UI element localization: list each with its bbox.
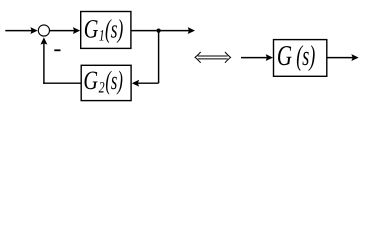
arrowhead into G1 — [73, 27, 80, 34]
wire branch to G2 — [137, 82, 159, 84]
arrowhead output — [188, 27, 195, 34]
svg-text:(s): (s) — [105, 15, 123, 44]
svg-text:G: G — [277, 41, 292, 72]
arrowhead output right — [351, 54, 358, 61]
arrowhead into summing junction bottom — [40, 37, 47, 44]
summing junction circle — [38, 25, 49, 36]
wire input right diagram — [241, 57, 268, 59]
arrowhead into summing junction — [30, 27, 37, 34]
node branch dot — [157, 29, 161, 33]
wire feedback up — [43, 44, 45, 84]
block G1 box — [81, 12, 131, 49]
arrowhead into G — [266, 54, 273, 61]
block G box — [274, 40, 327, 77]
minus sign label — [54, 49, 60, 51]
svg-text:G: G — [84, 15, 99, 44]
svg-text:1: 1 — [99, 28, 105, 45]
label G(s) — [277, 41, 315, 72]
wire G1 output — [131, 30, 189, 32]
wire G output — [327, 57, 354, 59]
block G2 box — [81, 65, 131, 100]
svg-text:(s): (s) — [296, 41, 315, 72]
wire input line — [5, 30, 32, 32]
wire G2 output feedback — [43, 82, 81, 84]
svg-text:(s): (s) — [105, 67, 123, 96]
svg-text:G: G — [83, 67, 98, 96]
label G2(s) — [83, 67, 123, 97]
arrowhead into G2 — [132, 80, 139, 87]
wire junction to G1 — [50, 30, 75, 32]
svg-text:2: 2 — [99, 80, 105, 97]
equivalence double arrow — [195, 52, 231, 63]
wire branch down — [158, 31, 160, 84]
label G1(s) — [84, 15, 124, 45]
